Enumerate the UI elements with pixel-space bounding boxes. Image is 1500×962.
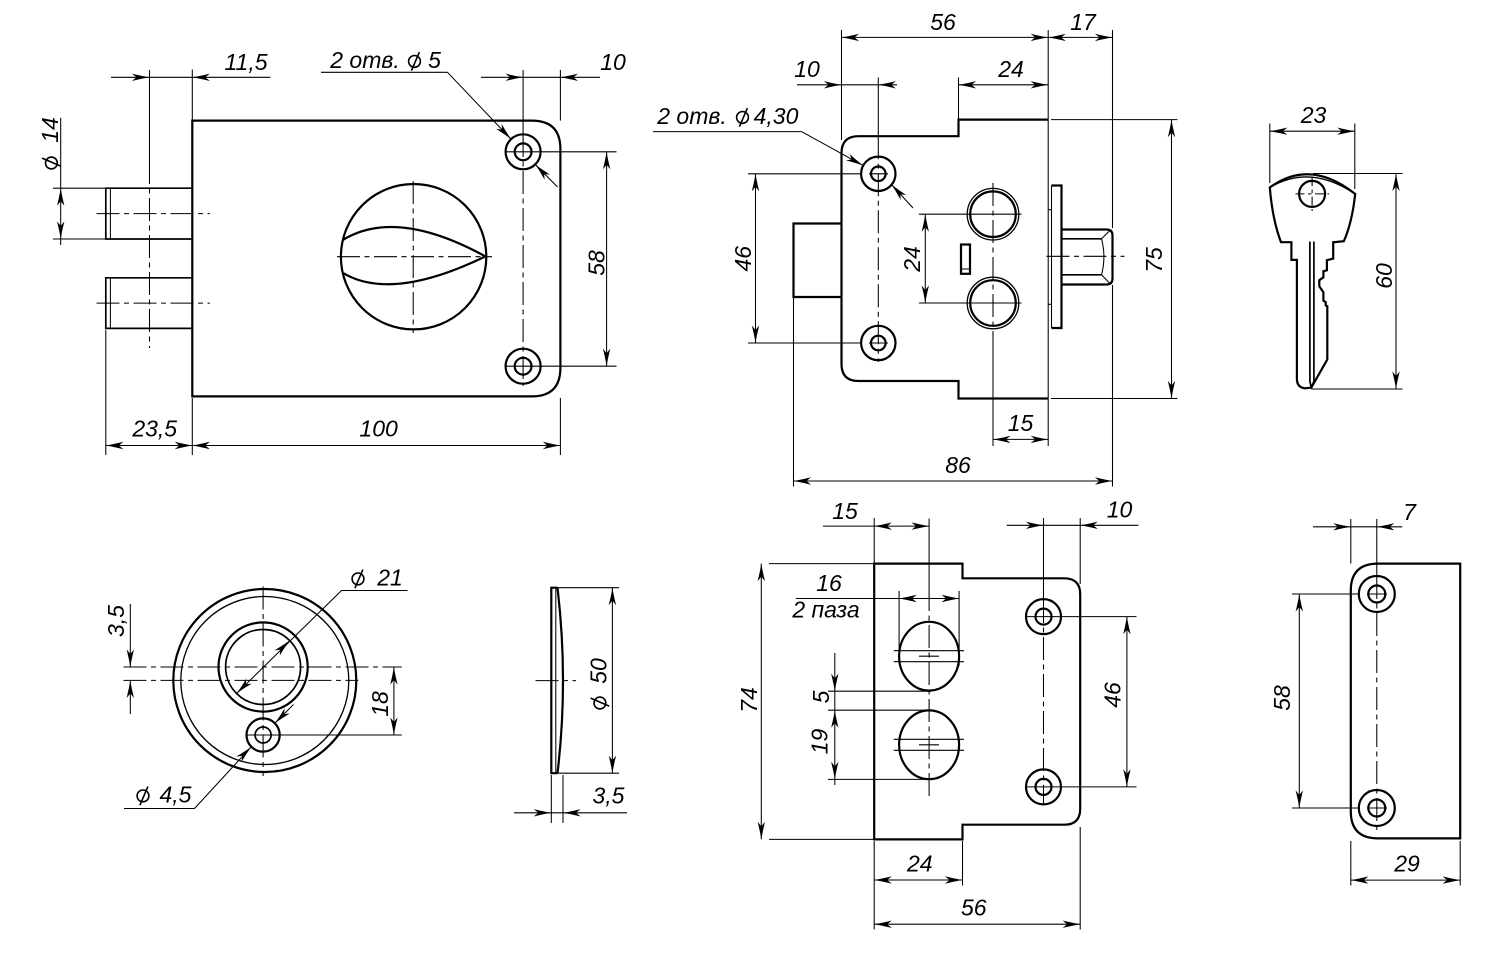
svg-text:14: 14 — [37, 117, 63, 143]
dimension 29 — [1351, 879, 1460, 881]
dimension 18 — [393, 667, 395, 735]
svg-text:10: 10 — [600, 49, 626, 75]
dimension 24 vertical (cylinder holes) — [924, 214, 926, 303]
knob hole outer circle — [219, 622, 308, 711]
cylinder center line horizontal — [1047, 255, 1125, 257]
dimension 46 (back plate) — [1126, 617, 1128, 787]
svg-text:56: 56 — [961, 895, 987, 921]
key blade groove — [1310, 242, 1311, 388]
view: escutcheon outer circle — [173, 589, 356, 772]
center line bolts vertical — [149, 70, 151, 161]
svg-text:21: 21 — [376, 565, 403, 591]
svg-text:74: 74 — [736, 687, 762, 713]
dimension 74 — [760, 564, 762, 840]
knob center line horizontal — [337, 256, 492, 258]
screw hole top (rear) — [861, 157, 895, 191]
knob hole inner circle — [226, 630, 301, 705]
dimension 10 (rear) — [797, 84, 897, 86]
screw holes center line (rear) — [877, 78, 879, 137]
svg-text:5: 5 — [808, 690, 834, 703]
svg-text:4,30: 4,30 — [754, 103, 799, 129]
svg-text:3,5: 3,5 — [103, 605, 129, 637]
screw hole bottom right — [506, 349, 541, 384]
cam slot bottom oval — [899, 710, 959, 779]
cylinder hole bottom horizontal line — [919, 302, 1022, 304]
slot rectangle small — [961, 245, 970, 274]
svg-text:16: 16 — [816, 570, 842, 596]
screw hole bottom (rear) — [861, 326, 895, 360]
knob center line vertical — [412, 181, 414, 333]
escutcheon inner rim circle — [181, 597, 349, 765]
dimension 86 — [794, 480, 1113, 482]
cylinder hole top horizontal line — [919, 213, 1022, 215]
screw hole top right — [506, 134, 541, 169]
svg-text:24: 24 — [997, 56, 1024, 82]
dimension d50 — [611, 588, 613, 774]
svg-text:24: 24 — [899, 246, 925, 273]
dimension 17 — [1048, 36, 1112, 38]
cam slot center dashes — [919, 655, 939, 657]
dimension 16 label 2 paza — [899, 598, 959, 600]
knob circle — [341, 184, 486, 329]
view: lock body front view outline — [192, 121, 560, 397]
cylinder hole top circle — [967, 188, 1019, 240]
dimension 58 — [606, 152, 608, 366]
dimension 11,5 — [111, 76, 271, 78]
back plate screw hole bottom — [1026, 769, 1061, 804]
dimension 7 — [1313, 526, 1402, 528]
dimension 5 and 19 — [834, 653, 836, 785]
center line lower bolt — [97, 302, 211, 304]
cam slots vertical center line — [928, 519, 930, 589]
view: back plate outline — [874, 564, 1080, 840]
svg-text:58: 58 — [1269, 685, 1295, 711]
label d21 with leader — [352, 573, 364, 585]
dimension 56 (back plate) — [874, 923, 1080, 925]
svg-text:17: 17 — [1070, 9, 1097, 35]
svg-text:23: 23 — [1300, 102, 1327, 128]
view: strike plate outline — [1351, 564, 1460, 839]
cam slot top chord lines — [894, 650, 964, 652]
bolt tab lower — [106, 278, 193, 329]
dimension 15 (rear bottom) — [993, 438, 1048, 440]
bolt tab upper — [106, 188, 193, 239]
escutcheon horizontal center line — [124, 679, 359, 681]
view: lock rear view outline — [842, 120, 1049, 399]
dimension 10 top right — [481, 76, 600, 78]
small hole horizontal line — [246, 734, 402, 736]
knob hole horizontal center line — [124, 666, 402, 668]
dimension 56 (rear top) — [842, 36, 1049, 38]
view: disc side view outline — [551, 588, 563, 774]
strike plate screw hole top — [1359, 576, 1395, 612]
dimension 60 (key) — [1395, 174, 1397, 390]
cylinder body — [1062, 230, 1113, 285]
strike plate screw hole bottom — [1359, 790, 1395, 826]
svg-text:100: 100 — [359, 416, 398, 442]
svg-text:4,5: 4,5 — [160, 782, 192, 808]
cylinder escutcheon plate edge-on — [1051, 186, 1053, 329]
cam slot top oval — [899, 622, 959, 691]
svg-text:2 отв.: 2 отв. — [656, 103, 727, 129]
back plate screw holes center line — [1043, 518, 1045, 600]
svg-text:46: 46 — [730, 246, 756, 272]
svg-text:19: 19 — [807, 729, 833, 755]
dimension 75 — [1171, 120, 1173, 399]
svg-text:24: 24 — [906, 851, 933, 877]
dimension 58 (strike) — [1298, 594, 1300, 808]
dimension 23 (key) — [1270, 130, 1355, 132]
dimension d14 — [60, 118, 62, 245]
svg-text:10: 10 — [1107, 497, 1133, 523]
knob thumbturn lens upper arc — [343, 227, 486, 256]
deadbolt rear rect — [794, 224, 842, 298]
key head inner arc — [1270, 177, 1355, 194]
cam slot bottom chord lines — [894, 738, 964, 740]
dimension 23,5 — [106, 445, 193, 447]
dimension 3,5 (offset) — [129, 604, 131, 667]
svg-text:15: 15 — [832, 498, 858, 524]
dimension 10 (back plate) — [1007, 524, 1139, 526]
svg-text:10: 10 — [794, 56, 820, 82]
knob thumbturn lens lower arc — [343, 256, 485, 284]
dimension 24 (rear top) — [959, 84, 1049, 86]
extension lines bottom dims — [105, 330, 107, 455]
disc center line — [536, 680, 577, 682]
svg-text:60: 60 — [1371, 263, 1397, 289]
svg-text:15: 15 — [1008, 410, 1034, 436]
cylinder hole bottom circle — [967, 277, 1019, 329]
dimension 46 (rear) — [755, 174, 757, 343]
back plate screw hole top — [1026, 599, 1061, 634]
slot tangent extension lines — [828, 690, 931, 692]
svg-text:5: 5 — [428, 47, 441, 73]
svg-text:46: 46 — [1100, 682, 1126, 708]
svg-text:50: 50 — [586, 658, 612, 684]
escutcheon vertical center line — [262, 587, 264, 777]
screw hole top horizontal center line — [506, 151, 617, 153]
dimension 24 (back plate) — [874, 879, 962, 881]
svg-text:29: 29 — [1393, 851, 1420, 877]
svg-text:18: 18 — [367, 691, 393, 717]
view: key outline — [1270, 174, 1355, 388]
cylinder holes vertical center line — [992, 183, 994, 340]
dimension 3,5 (disc) — [514, 812, 627, 814]
screw hole horizontal lines (back plate) — [1026, 616, 1137, 618]
svg-text:58: 58 — [584, 250, 610, 276]
screw holes center line vertical — [522, 70, 524, 134]
svg-text:56: 56 — [930, 9, 956, 35]
svg-text:23,5: 23,5 — [131, 416, 177, 442]
label d4,5 with leader — [137, 790, 149, 802]
extension line body right top — [559, 70, 561, 121]
svg-text:86: 86 — [945, 452, 971, 478]
svg-text:2 отв.: 2 отв. — [329, 47, 400, 73]
dimension 100 — [192, 445, 560, 447]
svg-text:3,5: 3,5 — [593, 783, 625, 809]
key head hole — [1299, 181, 1325, 207]
svg-text:75: 75 — [1141, 247, 1167, 273]
center line upper bolt — [97, 213, 211, 215]
small screw hole — [247, 718, 280, 751]
disc face line — [555, 588, 557, 773]
dimension 15 (back plate) — [874, 525, 929, 527]
svg-text:7: 7 — [1403, 499, 1417, 525]
screw hole bottom horizontal center line — [506, 365, 617, 367]
svg-text:11,5: 11,5 — [224, 49, 267, 75]
svg-text:2 паза: 2 паза — [791, 597, 859, 623]
strike plate center line — [1376, 519, 1378, 576]
